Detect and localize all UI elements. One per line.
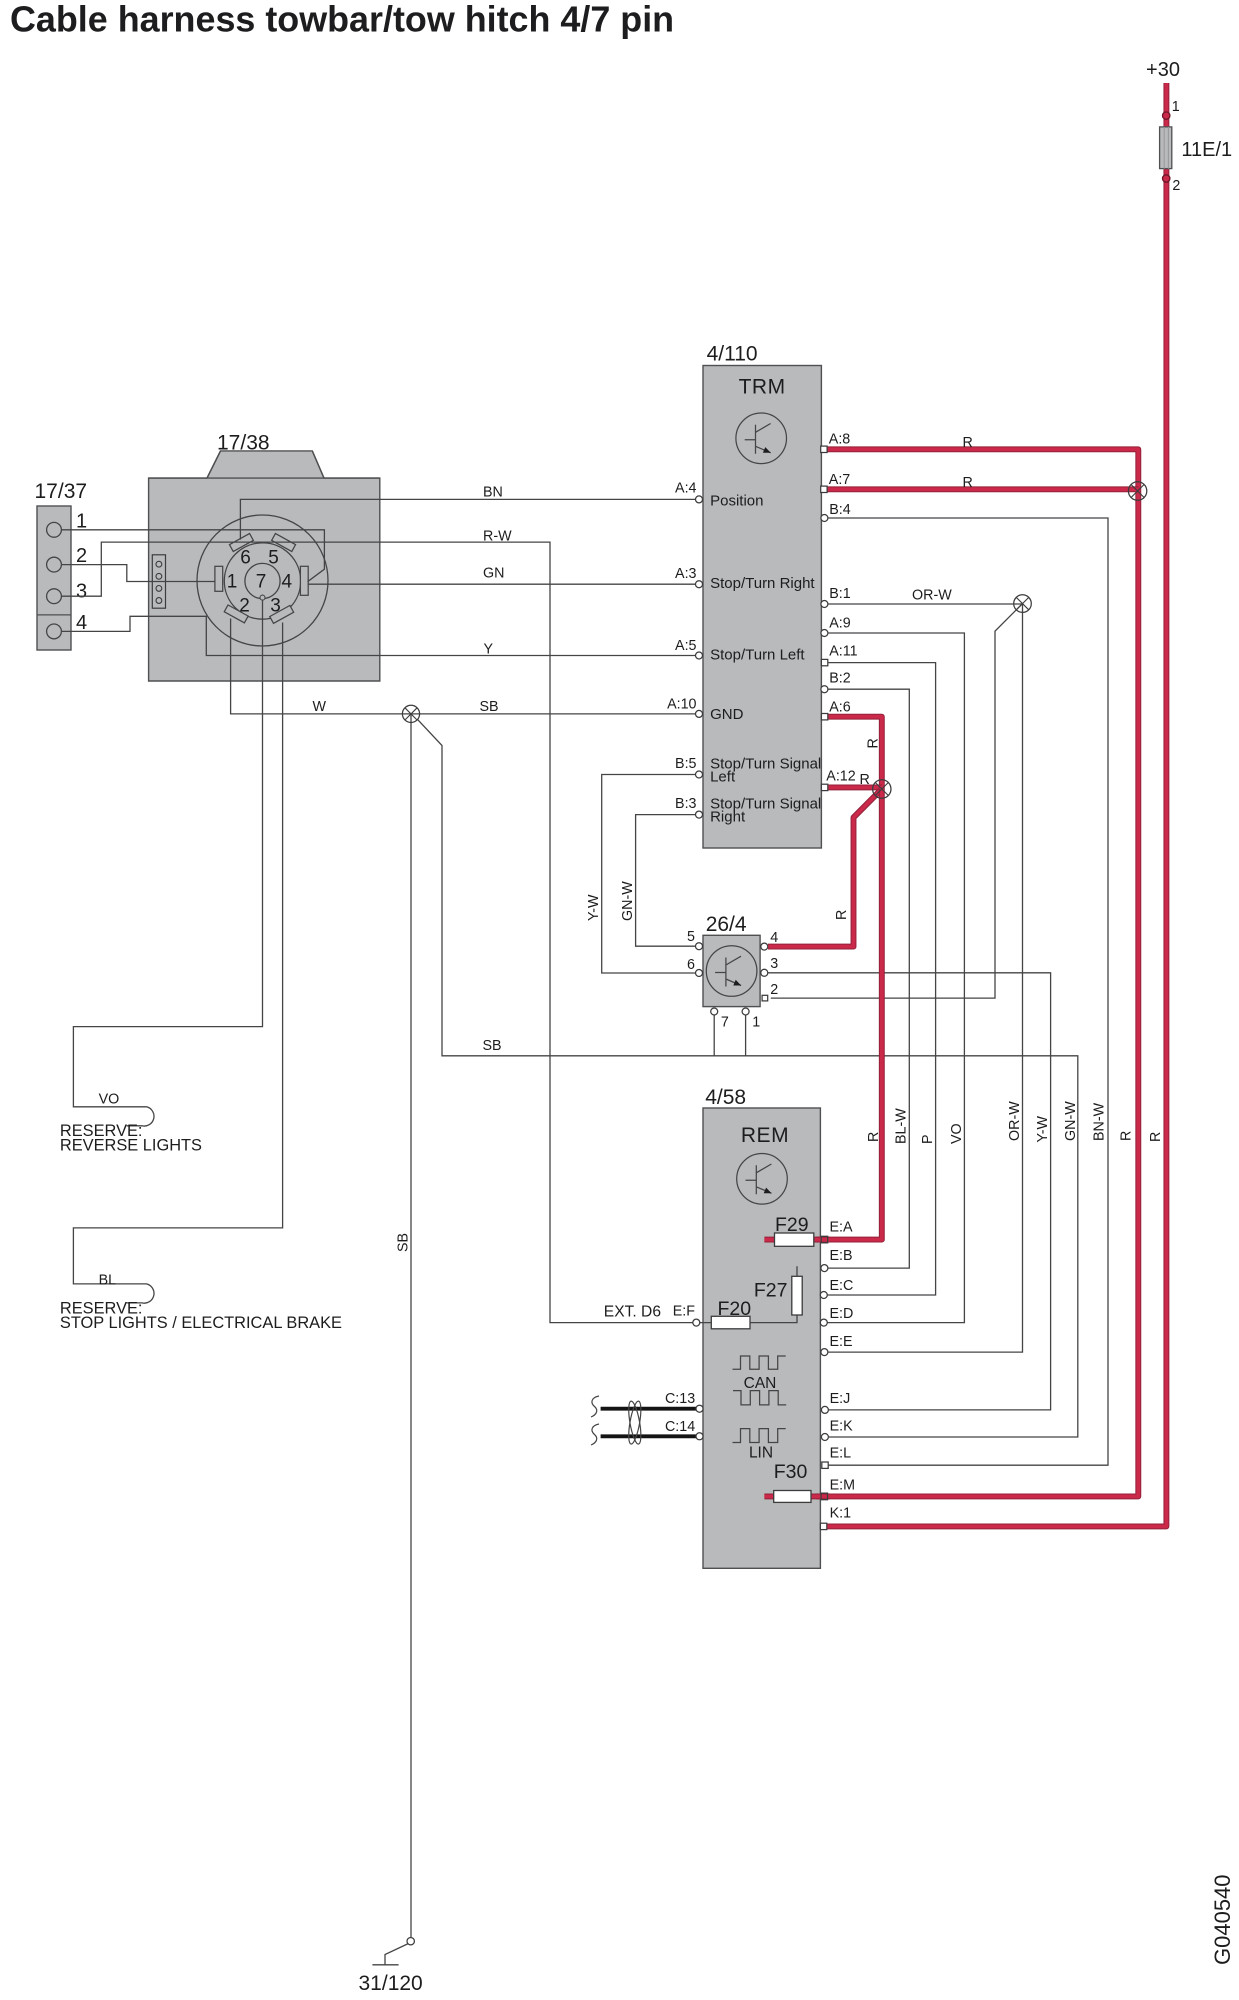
svg-text:4/58: 4/58 xyxy=(705,1086,746,1109)
svg-text:Left: Left xyxy=(710,769,736,786)
svg-text:3: 3 xyxy=(770,956,778,972)
pin 26/4:6 xyxy=(696,970,703,977)
slot 1 xyxy=(215,566,223,591)
svg-text:5: 5 xyxy=(268,548,279,569)
svg-text:1: 1 xyxy=(227,572,238,593)
svg-text:EXT. D6: EXT. D6 xyxy=(604,1304,661,1321)
svg-text:A:3: A:3 xyxy=(675,566,697,582)
fuse F20 xyxy=(711,1316,750,1329)
svg-text:SB: SB xyxy=(483,1038,502,1054)
pin E:D xyxy=(820,1319,827,1326)
pin B:2 xyxy=(821,686,828,693)
pin K:1 xyxy=(820,1523,826,1529)
wire OR-W (splice to 26/4:2) xyxy=(771,604,1023,999)
slot 2 xyxy=(224,605,248,623)
svg-text:R: R xyxy=(834,910,850,920)
black wire C:14 xyxy=(601,1434,697,1438)
splice red A:12 node xyxy=(873,780,891,798)
wire BN (17/38:6 to A:4) xyxy=(240,499,695,539)
svg-text:BN: BN xyxy=(483,485,503,501)
pin C:14 xyxy=(696,1433,703,1440)
svg-text:REVERSE LIGHTS: REVERSE LIGHTS xyxy=(60,1136,202,1154)
svg-text:B:2: B:2 xyxy=(829,671,851,687)
pin A:12 xyxy=(821,784,827,790)
svg-text:GND: GND xyxy=(710,706,744,723)
svg-text:Position: Position xyxy=(710,493,763,510)
slot 4 xyxy=(300,566,308,595)
pin B:3 xyxy=(696,811,703,818)
relay 26/4 xyxy=(703,935,760,1006)
wire SB to ground xyxy=(410,714,412,1938)
wire BL-W (B:2 to E:B) xyxy=(828,689,909,1268)
red wire through pin E:A xyxy=(816,1237,830,1243)
svg-text:A:6: A:6 xyxy=(829,699,851,715)
wire VO (A:9 to E:D) xyxy=(828,633,965,1323)
svg-text:LIN: LIN xyxy=(749,1445,773,1462)
svg-text:R: R xyxy=(860,772,870,788)
pin A:11 xyxy=(821,659,827,665)
wire OR-W (splice to E:E) xyxy=(828,604,1022,1353)
svg-text:CAN: CAN xyxy=(744,1375,777,1392)
control module 4/110 TRM xyxy=(703,366,821,849)
svg-text:GN-W: GN-W xyxy=(620,881,636,921)
break squiggle C:13 xyxy=(591,1396,599,1417)
svg-text:Stop/Turn Right: Stop/Turn Right xyxy=(710,575,815,592)
pin A:6 xyxy=(821,714,827,720)
wire Y-W (B:5 to 26/4:6) xyxy=(602,775,696,974)
svg-text:E:F: E:F xyxy=(673,1304,696,1320)
svg-text:11E/1: 11E/1 xyxy=(1181,139,1232,161)
svg-text:Y: Y xyxy=(484,642,494,658)
pin E:J xyxy=(821,1406,828,1413)
connector 11E/1 pin 2 xyxy=(1163,175,1170,182)
svg-text:A:5: A:5 xyxy=(675,638,697,654)
pin B:1 xyxy=(821,601,828,608)
CAN wave upper xyxy=(733,1356,786,1369)
pin A:8 xyxy=(821,446,827,452)
svg-text:G040540: G040540 xyxy=(1210,1874,1235,1965)
ground lead xyxy=(372,1944,408,1965)
svg-text:3: 3 xyxy=(270,596,281,617)
17/37 cavity 3 xyxy=(47,589,62,604)
svg-text:GN-W: GN-W xyxy=(1063,1101,1079,1141)
svg-text:Y-W: Y-W xyxy=(586,894,602,921)
wire stub 26/4 pin 7 xyxy=(713,1015,715,1056)
pin 26/4:7 xyxy=(711,1008,718,1015)
svg-text:26/4: 26/4 xyxy=(706,913,747,936)
17/37 cavity 1 xyxy=(47,522,62,537)
pin 26/4:5 xyxy=(696,943,703,950)
pin 26/4:3 xyxy=(761,969,768,976)
svg-text:BN-W: BN-W xyxy=(1091,1102,1107,1141)
wire BL (17/38:3 reserve) xyxy=(73,623,282,1304)
svg-text:R: R xyxy=(963,475,973,491)
pin A:3 xyxy=(696,581,703,588)
wire stub 26/4 pin 1 xyxy=(745,1015,747,1056)
red wire A:8/A:7 to E:M xyxy=(764,449,1138,1496)
splice red A:7/A:8 node xyxy=(1128,482,1146,500)
pin E:E xyxy=(821,1349,828,1356)
ring center circle xyxy=(245,563,280,598)
svg-text:W: W xyxy=(313,699,327,715)
pin E:M xyxy=(821,1493,827,1499)
red wire splice to E:A xyxy=(764,789,881,1240)
svg-text:A:8: A:8 xyxy=(829,432,851,448)
svg-text:1: 1 xyxy=(1172,99,1180,115)
svg-text:E:L: E:L xyxy=(830,1446,852,1462)
CAN wave lower xyxy=(733,1391,786,1405)
svg-text:R: R xyxy=(866,738,882,748)
red wire splice to 26/4:4 xyxy=(768,789,882,947)
svg-text:STOP LIGHTS / ELECTRICAL BRAKE: STOP LIGHTS / ELECTRICAL BRAKE xyxy=(60,1314,342,1332)
wire GN (17/38:4 to A:3) xyxy=(308,583,696,585)
svg-text:7: 7 xyxy=(256,572,267,593)
svg-text:Y-W: Y-W xyxy=(1035,1116,1051,1143)
svg-text:2: 2 xyxy=(76,545,87,567)
svg-text:Cable harness towbar/tow hitch: Cable harness towbar/tow hitch 4/7 pin xyxy=(10,0,674,40)
pin A:4 xyxy=(696,496,703,503)
pin 26/4:1 xyxy=(742,1008,749,1015)
svg-text:R: R xyxy=(866,1132,882,1142)
fuse F29 xyxy=(775,1233,814,1246)
connector 17/37 body xyxy=(37,506,71,650)
ground contact circle xyxy=(407,1938,414,1945)
svg-text:R-W: R-W xyxy=(483,529,512,545)
svg-text:E:D: E:D xyxy=(830,1306,854,1322)
svg-text:7: 7 xyxy=(721,1014,729,1030)
svg-text:17/37: 17/37 xyxy=(35,480,88,503)
wire GN-W (B:3 to 26/4:5) xyxy=(636,815,696,947)
wire E:F fuse link internal xyxy=(700,1266,797,1322)
transistor symbol REM xyxy=(737,1154,788,1205)
svg-text:OR-W: OR-W xyxy=(1007,1101,1023,1141)
svg-text:2: 2 xyxy=(239,596,250,617)
svg-text:E:B: E:B xyxy=(830,1248,853,1264)
svg-text:4: 4 xyxy=(770,930,778,946)
wire P (A:11 to E:C) xyxy=(828,663,936,1295)
svg-text:2: 2 xyxy=(1172,178,1180,194)
pin C:13 xyxy=(696,1405,703,1412)
pin 26/4:2 xyxy=(762,995,768,1001)
svg-text:R: R xyxy=(1119,1131,1135,1141)
red wire A:7 branch xyxy=(827,486,1138,492)
LIN wave xyxy=(733,1429,786,1443)
svg-text:VO: VO xyxy=(99,1092,120,1108)
svg-text:2: 2 xyxy=(770,982,778,998)
svg-text:E:M: E:M xyxy=(830,1478,855,1494)
ring inner circle xyxy=(224,543,300,619)
17/37 cavity 4 xyxy=(47,624,62,639)
twisted pair symbol xyxy=(626,1400,643,1445)
wire BN-W (B:4 to E:L) xyxy=(828,518,1108,1465)
svg-text:GN: GN xyxy=(483,566,504,582)
slot 5 xyxy=(272,534,296,552)
svg-text:A:12: A:12 xyxy=(826,768,855,784)
svg-text:6: 6 xyxy=(687,957,695,973)
pin E:L xyxy=(822,1462,828,1468)
black wire C:13 xyxy=(601,1407,697,1411)
svg-text:C:13: C:13 xyxy=(665,1391,695,1407)
svg-text:Stop/Turn Left: Stop/Turn Left xyxy=(710,647,805,664)
ring index hole xyxy=(260,595,265,600)
svg-text:6: 6 xyxy=(240,548,251,569)
pin A:5 xyxy=(696,652,703,659)
pin B:5 xyxy=(696,771,703,778)
svg-text:4: 4 xyxy=(76,612,87,634)
svg-text:OR-W: OR-W xyxy=(912,588,952,604)
svg-text:R: R xyxy=(963,435,973,451)
svg-text:SB: SB xyxy=(480,699,499,715)
svg-text:B:4: B:4 xyxy=(829,502,851,518)
svg-text:17/38: 17/38 xyxy=(217,432,270,455)
wire Y (17/37:4 via 17/38 to A:5) xyxy=(62,616,696,655)
slot 6 xyxy=(229,534,253,552)
svg-text:F20: F20 xyxy=(718,1298,752,1320)
svg-text:E:C: E:C xyxy=(830,1278,854,1294)
svg-text:C:14: C:14 xyxy=(665,1419,695,1435)
svg-text:A:11: A:11 xyxy=(829,643,857,659)
red wire through pin E:M xyxy=(816,1493,830,1499)
pin A:9 xyxy=(821,630,828,637)
svg-text:A:4: A:4 xyxy=(675,481,697,497)
red wire A:6 to splice xyxy=(827,717,882,789)
svg-text:31/120: 31/120 xyxy=(359,1972,423,1995)
inline connector strip xyxy=(152,555,165,608)
slot 3 xyxy=(270,605,294,623)
pin E:F xyxy=(693,1319,700,1326)
red wire +30 feed to K:1 xyxy=(827,83,1166,1526)
connector 17/38 housing xyxy=(149,451,380,681)
svg-text:5: 5 xyxy=(687,929,695,945)
svg-text:P: P xyxy=(920,1134,936,1144)
wire 17/37:1 to 17/38:4 xyxy=(62,530,325,582)
ring outer circle xyxy=(197,515,328,646)
svg-text:BL-W: BL-W xyxy=(894,1108,910,1144)
svg-text:B:3: B:3 xyxy=(675,796,697,812)
wire W/SB (17/38:2 to A:10) xyxy=(231,619,696,714)
wire OR-W (B:1 to splice) xyxy=(828,603,1023,605)
svg-text:BL: BL xyxy=(99,1273,117,1289)
red wire A:12 branch xyxy=(827,784,882,790)
wire VO (17/38:7 reserve) xyxy=(73,600,262,1126)
fuse body 11E/1 xyxy=(1160,127,1172,169)
svg-text:B:1: B:1 xyxy=(829,586,851,602)
svg-text:K:1: K:1 xyxy=(830,1506,852,1522)
control module 4/58 REM xyxy=(703,1108,820,1568)
svg-text:E:J: E:J xyxy=(830,1391,851,1407)
svg-text:E:E: E:E xyxy=(830,1334,853,1350)
pin E:K xyxy=(821,1434,828,1441)
svg-text:A:9: A:9 xyxy=(829,616,851,632)
pin E:B xyxy=(821,1265,828,1272)
svg-text:F29: F29 xyxy=(775,1214,809,1236)
pin 26/4:4 xyxy=(761,943,768,950)
wire R-W (17/37:3 via 17/38:5 to E:F) xyxy=(62,542,693,1323)
17/37 cavity 2 xyxy=(47,557,62,572)
connector 11E/1 pin 1 xyxy=(1163,112,1170,119)
wire 17/37:2 to 17/38:1 xyxy=(62,565,216,582)
svg-text:A:10: A:10 xyxy=(667,697,696,713)
svg-text:1: 1 xyxy=(752,1014,760,1030)
svg-text:Right: Right xyxy=(710,809,746,826)
splice SB node xyxy=(402,705,419,722)
pin A:7 xyxy=(821,486,827,492)
svg-text:4: 4 xyxy=(282,572,293,593)
pin E:C xyxy=(820,1292,827,1299)
pin A:10 xyxy=(696,710,703,717)
svg-text:4/110: 4/110 xyxy=(707,343,758,366)
svg-text:TRM: TRM xyxy=(739,376,786,399)
svg-text:F27: F27 xyxy=(754,1280,788,1302)
svg-text:R: R xyxy=(1148,1132,1164,1142)
pin B:4 xyxy=(821,515,828,522)
wire SB branch (splice to 26/4 and E:K) xyxy=(417,719,1078,1437)
svg-text:F30: F30 xyxy=(774,1461,808,1483)
wire Y-W (26/4:3 to E:J) xyxy=(768,973,1051,1410)
break squiggle C:14 xyxy=(591,1424,599,1445)
svg-text:E:A: E:A xyxy=(830,1220,854,1236)
svg-text:E:K: E:K xyxy=(830,1419,854,1435)
splice OR-W node xyxy=(1014,595,1032,613)
svg-text:SB: SB xyxy=(396,1233,412,1252)
fuse F30 xyxy=(774,1491,811,1503)
svg-text:B:5: B:5 xyxy=(675,756,697,772)
transistor symbol TRM xyxy=(736,413,787,464)
transistor symbol 26/4 xyxy=(706,946,757,997)
svg-text:A:7: A:7 xyxy=(829,472,851,488)
svg-text:VO: VO xyxy=(949,1123,965,1144)
svg-text:+30: +30 xyxy=(1146,59,1180,81)
svg-text:3: 3 xyxy=(76,581,87,603)
svg-text:REM: REM xyxy=(741,1124,789,1147)
pin E:A xyxy=(821,1236,827,1242)
fuse F27 xyxy=(792,1276,802,1315)
